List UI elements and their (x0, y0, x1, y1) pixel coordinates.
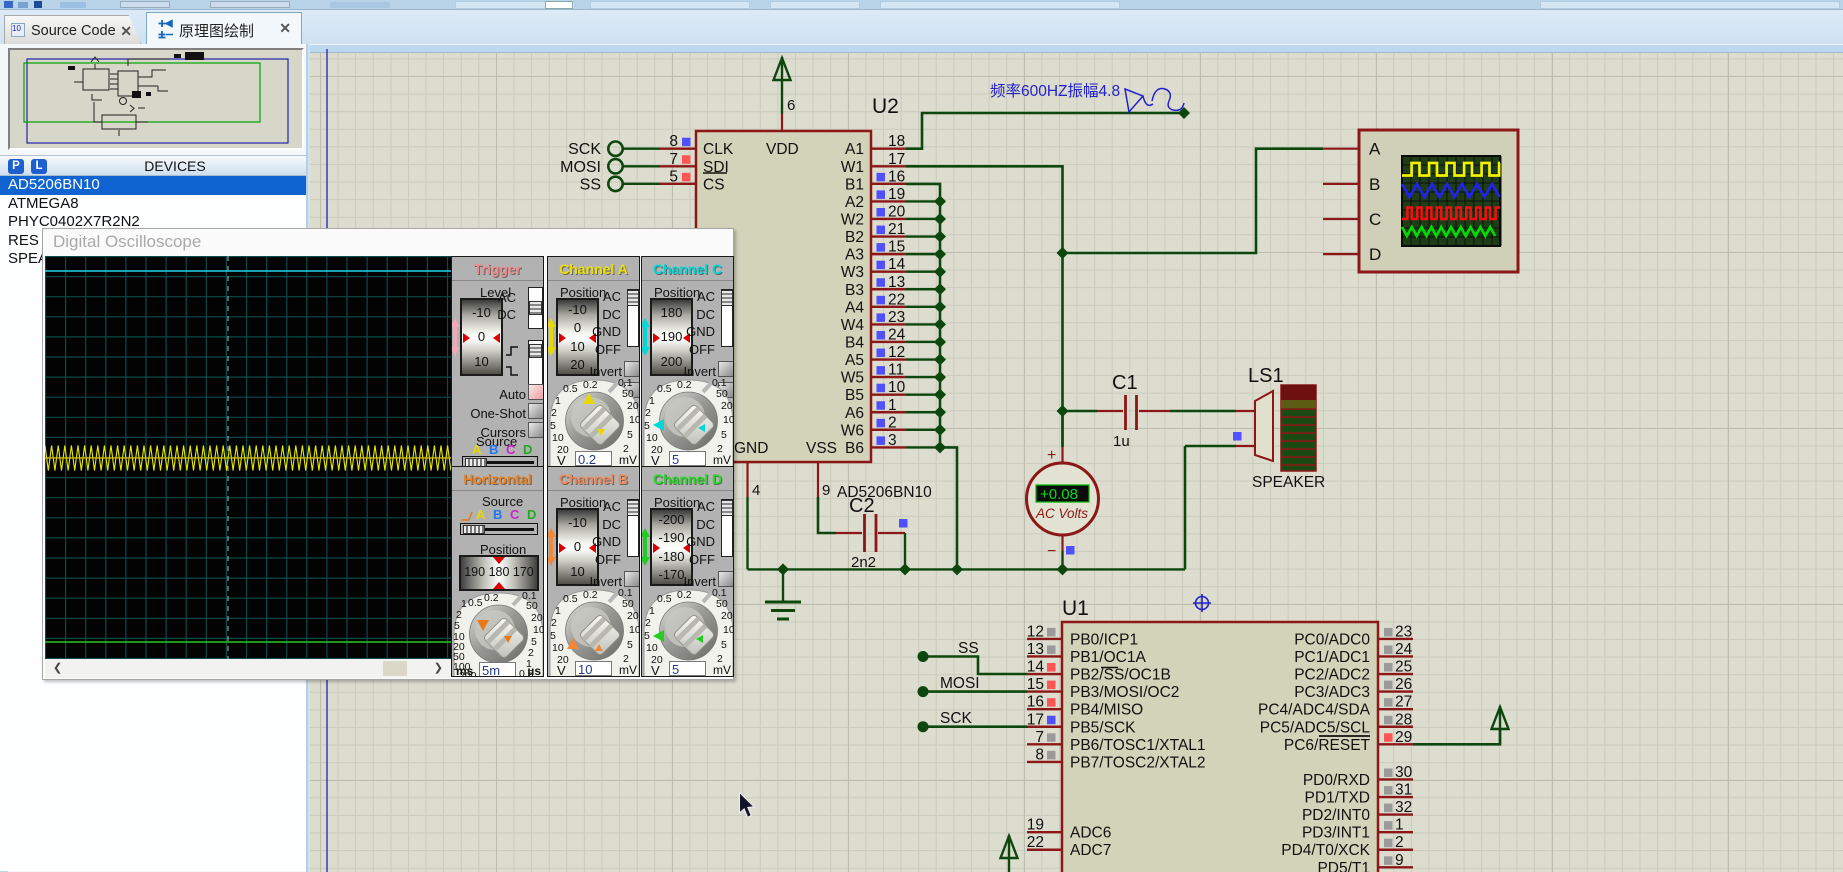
svg-text:9: 9 (1395, 852, 1404, 869)
svg-text:0.5: 0.5 (468, 597, 483, 609)
svg-text:B6: B6 (845, 440, 864, 457)
svg-text:PC6/RESET: PC6/RESET (1284, 737, 1371, 754)
svg-text:SS: SS (958, 640, 979, 657)
svg-text:31: 31 (1395, 782, 1412, 799)
svg-text:29: 29 (1395, 729, 1412, 746)
svg-text:24: 24 (1395, 641, 1413, 658)
svg-text:PB1/OC1A: PB1/OC1A (1070, 649, 1146, 666)
svg-text:10: 10 (552, 432, 564, 444)
svg-text:PB7/TOSC2/XTAL2: PB7/TOSC2/XTAL2 (1070, 754, 1206, 771)
svg-text:2: 2 (645, 407, 651, 419)
svg-text:2: 2 (551, 407, 557, 419)
svg-text:PB0/ICP1: PB0/ICP1 (1070, 631, 1138, 648)
wire to scope A (1063, 149, 1324, 253)
svg-text:16: 16 (888, 168, 905, 185)
svg-text:0.5: 0.5 (563, 593, 578, 605)
svg-text:W5: W5 (841, 370, 864, 387)
svg-text:23: 23 (888, 309, 905, 326)
svg-text:频率600HZ振幅4.8: 频率600HZ振幅4.8 (990, 82, 1120, 100)
svg-text:1u: 1u (1113, 433, 1130, 450)
svg-text:4: 4 (752, 482, 760, 499)
svg-text:−: − (1047, 543, 1056, 560)
svg-text:1: 1 (461, 598, 467, 610)
svg-text:24: 24 (888, 326, 906, 343)
svg-text:A4: A4 (845, 299, 864, 316)
svg-text:W4: W4 (841, 317, 865, 334)
B1 pin bus (906, 184, 940, 448)
svg-text:2: 2 (551, 617, 557, 629)
svg-text:C: C (1369, 210, 1381, 229)
svg-text:W2: W2 (841, 211, 864, 228)
svg-text:PD4/T0/XCK: PD4/T0/XCK (1281, 842, 1370, 859)
svg-text:B3: B3 (845, 282, 864, 299)
svg-text:VDD: VDD (766, 141, 799, 158)
svg-text:PB6/TOSC1/XTAL1: PB6/TOSC1/XTAL1 (1070, 737, 1206, 754)
svg-text:1: 1 (1395, 817, 1404, 834)
svg-text:GND: GND (734, 440, 768, 457)
U2 VSS pin 9 to C2 (817, 461, 819, 497)
VDD power pin + arrow (781, 114, 783, 131)
svg-text:14: 14 (888, 256, 906, 273)
svg-text:PC1/ADC1: PC1/ADC1 (1294, 649, 1370, 666)
svg-text:10: 10 (533, 624, 544, 636)
svg-text:A3: A3 (845, 247, 864, 264)
svg-text:5: 5 (627, 429, 633, 441)
svg-text:22: 22 (1027, 834, 1044, 851)
svg-text:10: 10 (723, 414, 734, 426)
svg-text:PC2/ADC2: PC2/ADC2 (1294, 667, 1370, 684)
svg-text:A6: A6 (845, 405, 864, 422)
svg-text:10: 10 (646, 432, 658, 444)
U2 terminals SCK MOSI SS (608, 142, 622, 156)
svg-text:15: 15 (888, 239, 905, 256)
RESET wire + power arrow (1413, 729, 1500, 744)
svg-text:MOSI: MOSI (940, 675, 980, 692)
svg-text:PD1/TXD: PD1/TXD (1305, 790, 1370, 807)
svg-text:5: 5 (550, 420, 556, 432)
svg-text:0.2: 0.2 (677, 589, 692, 601)
U2 right pins (871, 147, 906, 149)
svg-text:17: 17 (888, 151, 905, 168)
svg-text:27: 27 (1395, 694, 1412, 711)
svg-text:26: 26 (1395, 676, 1412, 693)
svg-text:14: 14 (1027, 659, 1045, 676)
svg-text:12: 12 (888, 344, 905, 361)
svg-text:0.5: 0.5 (563, 383, 578, 395)
svg-text:7: 7 (1035, 729, 1044, 746)
svg-text:11: 11 (888, 362, 904, 379)
svg-text:23: 23 (1395, 623, 1412, 640)
svg-text:SCK: SCK (940, 710, 973, 727)
svg-text:28: 28 (1395, 711, 1412, 728)
svg-text:A2: A2 (845, 194, 864, 211)
svg-text:A5: A5 (845, 352, 864, 369)
IC U1 ATmega8 body (1062, 622, 1378, 872)
svg-text:VSS: VSS (806, 440, 837, 457)
svg-text:2: 2 (888, 414, 897, 431)
svg-text:2: 2 (1395, 834, 1404, 851)
svg-text:+: + (1047, 447, 1056, 464)
svg-text:5: 5 (644, 420, 650, 432)
svg-text:B4: B4 (845, 334, 864, 351)
svg-text:PC5/ADC5/SCL: PC5/ADC5/SCL (1260, 719, 1371, 736)
svg-text:B1: B1 (845, 176, 864, 193)
svg-text:5: 5 (721, 639, 727, 651)
svg-text:20: 20 (531, 612, 543, 624)
capacitor C1 (1063, 410, 1098, 412)
svg-text:PB3/MOSI/OC2: PB3/MOSI/OC2 (1070, 684, 1179, 701)
svg-text:10: 10 (888, 379, 906, 396)
svg-text:D: D (1369, 245, 1381, 264)
svg-text:A: A (1369, 140, 1381, 159)
svg-text:U1: U1 (1062, 597, 1089, 620)
svg-text:1: 1 (888, 397, 897, 414)
U1 left pins PB (1027, 638, 1062, 640)
svg-text:25: 25 (1395, 659, 1412, 676)
svg-text:W3: W3 (841, 264, 864, 281)
svg-text:19: 19 (1027, 817, 1044, 834)
IC U2 AD5206 body (696, 131, 871, 462)
svg-text:SS: SS (580, 176, 601, 193)
svg-text:B5: B5 (845, 387, 864, 404)
ground symbol (782, 569, 784, 601)
svg-text:20: 20 (721, 400, 733, 412)
svg-text:0.2: 0.2 (583, 589, 598, 601)
U1 right pins PC (1378, 638, 1413, 640)
svg-text:19: 19 (888, 186, 905, 203)
svg-text:0.2: 0.2 (583, 379, 598, 391)
svg-text:+0.08: +0.08 (1040, 486, 1078, 503)
bottom power arrow (1001, 836, 1018, 858)
wire W1 vertical bus (906, 166, 1063, 447)
svg-text:20: 20 (888, 203, 906, 220)
svg-text:CS: CS (703, 176, 725, 193)
ground rail (748, 568, 1186, 570)
svg-text:21: 21 (888, 221, 905, 238)
svg-text:1: 1 (649, 395, 655, 407)
svg-text:50: 50 (622, 388, 634, 400)
U1 SPI terminals (918, 651, 929, 662)
svg-text:50: 50 (526, 600, 538, 612)
svg-text:2n2: 2n2 (851, 554, 876, 571)
svg-text:W1: W1 (841, 159, 864, 176)
svg-text:PD3/INT1: PD3/INT1 (1302, 825, 1370, 842)
svg-text:50: 50 (716, 388, 728, 400)
svg-text:5: 5 (550, 630, 556, 642)
U1 right pins PD (1378, 778, 1413, 780)
U2 GND pin 4 (746, 461, 748, 497)
svg-text:C1: C1 (1112, 372, 1138, 394)
svg-text:0.2: 0.2 (484, 592, 499, 604)
svg-text:50: 50 (716, 598, 728, 610)
svg-text:PC0/ADC0: PC0/ADC0 (1294, 631, 1370, 648)
generator symbol blue (1125, 89, 1143, 112)
svg-text:50: 50 (622, 598, 634, 610)
svg-text:16: 16 (1027, 694, 1044, 711)
svg-text:10: 10 (552, 642, 564, 654)
svg-text:3: 3 (888, 432, 897, 449)
svg-text:SPEAKER: SPEAKER (1252, 474, 1325, 491)
svg-text:20: 20 (627, 610, 639, 622)
svg-text:13: 13 (888, 274, 905, 291)
svg-text:PB2/SS/OC1B: PB2/SS/OC1B (1070, 667, 1171, 684)
svg-text:13: 13 (1027, 641, 1044, 658)
svg-text:MOSI: MOSI (560, 159, 601, 176)
svg-text:U2: U2 (872, 95, 899, 118)
svg-text:10: 10 (723, 624, 734, 636)
svg-text:1: 1 (649, 605, 655, 617)
svg-text:CLK: CLK (703, 141, 734, 158)
svg-text:2: 2 (645, 617, 651, 629)
svg-text:PC3/ADC3: PC3/ADC3 (1294, 684, 1370, 701)
svg-text:PD2/INT0: PD2/INT0 (1302, 807, 1370, 824)
svg-text:15: 15 (1027, 676, 1044, 693)
svg-text:0.2: 0.2 (677, 379, 692, 391)
svg-text:0.5: 0.5 (657, 593, 672, 605)
svg-text:22: 22 (888, 291, 905, 308)
svg-text:18: 18 (888, 133, 905, 150)
svg-text:5: 5 (627, 639, 633, 651)
svg-text:8: 8 (669, 133, 678, 150)
svg-text:10: 10 (629, 414, 640, 426)
svg-text:ADC6: ADC6 (1070, 825, 1111, 842)
svg-text:PC4/ADC4/SDA: PC4/ADC4/SDA (1258, 702, 1371, 719)
svg-text:17: 17 (1027, 711, 1044, 728)
svg-text:20: 20 (627, 400, 639, 412)
svg-text:5: 5 (644, 630, 650, 642)
svg-text:LS1: LS1 (1248, 365, 1284, 387)
svg-text:ADC7: ADC7 (1070, 842, 1111, 859)
svg-text:SCK: SCK (568, 141, 601, 158)
svg-text:PB5/SCK: PB5/SCK (1070, 719, 1136, 736)
U1 left pins ADC6 ADC7 (1027, 831, 1062, 833)
svg-text:7: 7 (669, 151, 678, 168)
svg-text:PD0/RXD: PD0/RXD (1303, 772, 1370, 789)
svg-text:W6: W6 (841, 422, 864, 439)
graph scope component (1359, 130, 1518, 272)
svg-text:10: 10 (629, 624, 640, 636)
svg-text:C2: C2 (849, 495, 875, 517)
U2 left pins CLK SDI CS (660, 147, 696, 149)
svg-text:8: 8 (1035, 746, 1044, 763)
capacitor C2 (836, 532, 862, 534)
svg-text:5: 5 (721, 429, 727, 441)
AC voltmeter (1061, 411, 1063, 447)
svg-text:9: 9 (822, 482, 830, 499)
svg-text:AC Volts: AC Volts (1035, 506, 1088, 521)
svg-text:20: 20 (721, 610, 733, 622)
svg-text:1: 1 (555, 605, 561, 617)
svg-text:5: 5 (669, 168, 678, 185)
svg-text:32: 32 (1395, 799, 1412, 816)
svg-text:B2: B2 (845, 229, 864, 246)
svg-text:10: 10 (646, 642, 658, 654)
svg-text:PB4/MISO: PB4/MISO (1070, 702, 1143, 719)
svg-text:1: 1 (555, 395, 561, 407)
origin marker (1196, 597, 1209, 610)
svg-text:30: 30 (1395, 764, 1413, 781)
svg-text:PD5/T1: PD5/T1 (1317, 860, 1370, 872)
svg-text:0.5: 0.5 (657, 383, 672, 395)
svg-text:A1: A1 (845, 141, 864, 158)
svg-text:B: B (1369, 175, 1380, 194)
svg-text:6: 6 (787, 97, 795, 114)
svg-text:12: 12 (1027, 623, 1044, 640)
wire A1 to generator node (906, 113, 1184, 149)
